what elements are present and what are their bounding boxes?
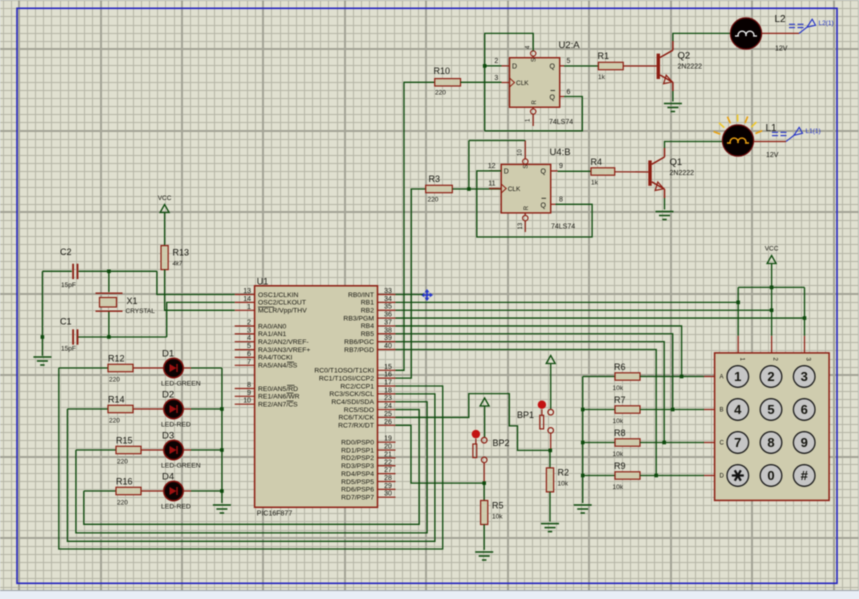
svg-text:8: 8: [767, 435, 774, 450]
ground LED bus: [213, 505, 231, 513]
wire RB2 to keypad col2: [396, 309, 772, 311]
svg-text:RA0/AN0: RA0/AN0: [258, 323, 287, 330]
svg-text:13: 13: [243, 288, 251, 295]
svg-text:R: R: [532, 100, 538, 105]
svg-text:#: #: [801, 468, 809, 483]
wire Q1 emitter: [664, 198, 666, 210]
junction: [220, 489, 224, 493]
svg-text:10: 10: [518, 149, 524, 156]
svg-text:LED-RED: LED-RED: [161, 422, 191, 429]
push button BP1: [517, 401, 554, 434]
junction: [483, 64, 487, 68]
LED D4 LED-RED: [161, 472, 191, 511]
wire L2 to terminal: [762, 32, 799, 34]
svg-text:RE1/AN6/WR: RE1/AN6/WR: [258, 394, 300, 401]
svg-text:220: 220: [117, 500, 128, 507]
svg-text:34: 34: [384, 296, 392, 303]
ground left rail: [33, 357, 51, 365]
svg-text:D: D: [512, 64, 517, 71]
junction: [803, 316, 807, 320]
svg-text:17: 17: [384, 380, 392, 387]
svg-text:D1: D1: [162, 349, 174, 360]
svg-text:10k: 10k: [613, 418, 624, 425]
crystal X1: [96, 293, 156, 315]
wire resistor to LED: [133, 367, 163, 369]
wire VCC to R13: [164, 213, 166, 246]
LED D3 LED-GREEN: [161, 431, 201, 470]
wire to OSC1 pin: [157, 271, 235, 294]
wire keypad column riser: [771, 287, 773, 335]
svg-text:1: 1: [247, 304, 251, 311]
svg-text:10k: 10k: [558, 481, 569, 488]
svg-text:R6: R6: [614, 362, 626, 372]
wire RC6 to BP1: [396, 394, 551, 451]
wire C1 to OSC2 riser: [77, 336, 166, 338]
resistor R5 10k: [481, 501, 504, 525]
flip-flop U2:A 74LS74: [494, 40, 580, 126]
ground R5: [475, 552, 493, 560]
wire Q1 collector to L1: [665, 142, 723, 149]
terminal L1(1): [772, 127, 821, 141]
svg-text:220: 220: [109, 418, 120, 425]
svg-text:12V: 12V: [766, 152, 779, 159]
wire crystal top stub: [108, 271, 110, 292]
wire Q to R1: [564, 65, 598, 67]
svg-text:B: B: [720, 408, 724, 414]
wire to R5: [483, 483, 485, 500]
wire VCC to BP2: [484, 406, 486, 437]
svg-text:Q: Q: [541, 202, 547, 209]
junction: [581, 408, 585, 412]
svg-text:CLK: CLK: [508, 186, 521, 193]
wire BP2 to junction: [483, 463, 485, 483]
wire keypad row stub: [704, 409, 716, 411]
svg-text:20: 20: [384, 444, 392, 451]
svg-text:8: 8: [559, 197, 563, 204]
svg-text:RC6/TX/CK: RC6/TX/CK: [338, 415, 374, 422]
ground R2: [541, 524, 559, 532]
junction: [107, 335, 111, 339]
resistor R2 10k: [546, 468, 569, 492]
resistor R8 10k: [613, 428, 641, 458]
wire LED cathode: [191, 449, 222, 451]
svg-text:S: S: [524, 165, 530, 169]
wire RB6 to keypad row C: [396, 342, 665, 443]
wire to R16: [84, 490, 116, 492]
svg-text:36: 36: [384, 312, 392, 319]
wire R1 to Q2 base: [623, 65, 657, 67]
svg-text:CRYSTAL: CRYSTAL: [126, 308, 156, 315]
wire BP1 to junction: [550, 433, 552, 450]
svg-text:R15: R15: [116, 436, 133, 446]
svg-text:R8: R8: [614, 428, 626, 438]
wire bus to R9: [583, 475, 615, 477]
wire resistor to LED: [133, 408, 163, 410]
svg-text:24: 24: [384, 403, 392, 410]
junction: [549, 449, 553, 453]
wire RB4 to keypad row A: [396, 326, 682, 377]
wire R4 to Q1 base: [615, 171, 649, 173]
svg-text:RB1: RB1: [361, 300, 374, 307]
svg-text:RA5/AN4/SS: RA5/AN4/SS: [258, 363, 298, 370]
wire R5 to ground: [483, 525, 485, 550]
svg-text:RC4/SDI/SDA: RC4/SDI/SDA: [331, 399, 374, 406]
wire left rail: [41, 271, 43, 337]
wire to R14: [67, 408, 108, 410]
power VCC R13: [158, 195, 172, 213]
svg-text:RC5/SDO: RC5/SDO: [344, 407, 374, 414]
svg-text:Q2: Q2: [678, 51, 691, 62]
svg-text:25: 25: [384, 411, 392, 418]
svg-text:Q1: Q1: [670, 157, 683, 168]
power VCC keypad: [765, 246, 779, 264]
wire Q2 emitter: [672, 91, 674, 102]
svg-text:11: 11: [488, 181, 495, 188]
svg-text:RD0/PSP0: RD0/PSP0: [341, 440, 374, 447]
svg-text:3: 3: [801, 369, 808, 384]
svg-text:35: 35: [384, 304, 392, 311]
svg-text:13: 13: [518, 222, 524, 229]
svg-text:15: 15: [384, 364, 392, 371]
svg-text:R3: R3: [429, 174, 441, 184]
svg-text:29: 29: [384, 483, 392, 490]
resistor R10 220: [434, 66, 461, 97]
wire RB1 to keypad col1: [396, 301, 739, 303]
svg-text:C1: C1: [60, 317, 72, 327]
wire U2:A D: [485, 65, 502, 67]
junction: [220, 407, 224, 411]
svg-text:RD2/PSP2: RD2/PSP2: [341, 455, 374, 462]
wire bus to R8: [583, 442, 615, 444]
resistor R13 4k7: [161, 246, 189, 270]
flip-flop U4:B 74LS74: [488, 141, 576, 233]
svg-text:2N2222: 2N2222: [678, 64, 703, 71]
bottom window strip: [0, 591, 859, 599]
wire keypad row stub: [704, 475, 716, 477]
ground keypad resistors: [574, 505, 592, 513]
svg-text:RB3/PGM: RB3/PGM: [343, 315, 374, 322]
junction: [654, 474, 658, 478]
svg-text:2N2222: 2N2222: [670, 170, 695, 177]
transistor Q1 2N2222: [648, 148, 694, 198]
wire RC7 to BP2: [396, 425, 485, 483]
svg-text:D2: D2: [162, 390, 174, 401]
resistor R15 220: [116, 436, 141, 466]
svg-text:RD1/PSP1: RD1/PSP1: [341, 447, 374, 454]
wire to R12: [59, 367, 108, 369]
svg-text:1k: 1k: [598, 74, 606, 81]
ground Q1: [656, 212, 674, 220]
ground Q2: [664, 104, 682, 112]
svg-text:2: 2: [494, 58, 498, 65]
svg-text:1k: 1k: [591, 180, 599, 187]
svg-text:RC2/CCP1: RC2/CCP1: [340, 383, 374, 390]
svg-text:RB2: RB2: [361, 308, 374, 315]
wire LED cathode stub: [183, 408, 191, 410]
junction: [736, 301, 740, 305]
svg-text:RD3/PSP3: RD3/PSP3: [341, 463, 374, 470]
junction: [482, 481, 486, 485]
lamp L2 12V: [730, 14, 787, 53]
svg-text:74LS74: 74LS74: [551, 224, 575, 231]
junction rail: [41, 335, 45, 339]
resistor R12 220: [108, 354, 133, 384]
wire RC1 to R3: [396, 189, 426, 378]
power VCC BP2: [480, 398, 489, 406]
svg-text:22: 22: [384, 459, 392, 466]
svg-text:10k: 10k: [492, 514, 503, 521]
svg-text:D: D: [720, 474, 725, 480]
svg-text:LED-RED: LED-RED: [161, 504, 191, 511]
svg-text:U1: U1: [257, 277, 269, 287]
wire bus to R7: [583, 409, 615, 411]
svg-text:10k: 10k: [613, 484, 624, 491]
wire U2:A Qbar feedback: [485, 97, 583, 131]
svg-text:A: A: [720, 375, 724, 381]
junction: [770, 286, 774, 290]
wire VCC stem: [771, 264, 773, 288]
LED D1 LED-GREEN: [161, 349, 201, 388]
svg-text:D: D: [504, 169, 509, 176]
junction: [662, 441, 666, 445]
resistor R4 1k: [591, 157, 615, 187]
junction: [680, 375, 684, 379]
svg-text:U4:B: U4:B: [550, 147, 571, 158]
wire R10 to U2:A CLK: [461, 81, 502, 83]
svg-text:R2: R2: [558, 468, 570, 478]
wire crystal bottom stub: [108, 312, 110, 338]
resistor R6 10k: [613, 362, 641, 392]
wire LED cathode stub: [183, 490, 191, 492]
resistor R1 1k: [598, 51, 624, 81]
wire Q to R4: [558, 170, 591, 172]
transistor Q2 2N2222: [657, 41, 703, 91]
svg-text:5: 5: [567, 58, 571, 65]
wire R13 to MCLR: [165, 270, 235, 311]
svg-text:BP2: BP2: [493, 438, 510, 448]
svg-text:RD7/PSP7: RD7/PSP7: [341, 494, 374, 501]
wire VCC bus: [738, 286, 804, 288]
svg-text:28: 28: [384, 475, 392, 482]
svg-text:12V: 12V: [775, 46, 788, 53]
svg-text:RE0/AN5/RD: RE0/AN5/RD: [258, 386, 298, 393]
svg-text:CLK: CLK: [516, 80, 529, 87]
wire Q2 collector to L2: [673, 33, 731, 41]
wire keypad column stub: [737, 336, 739, 353]
svg-text:RC0/T1OSO/T1CKI: RC0/T1OSO/T1CKI: [314, 368, 374, 375]
svg-text:L2(1): L2(1): [819, 20, 834, 27]
svg-text:R10: R10: [434, 66, 451, 76]
wire R6-R9 ground bus: [582, 377, 584, 504]
wire resistor to LED: [141, 449, 163, 451]
power VCC BP1: [546, 356, 555, 364]
svg-text:RB6/PGC: RB6/PGC: [344, 339, 374, 346]
wire L1 to terminal: [754, 141, 787, 143]
svg-text:33: 33: [384, 288, 392, 295]
svg-text:74LS74: 74LS74: [549, 119, 573, 126]
svg-text:R16: R16: [116, 477, 133, 487]
svg-text:BP1: BP1: [517, 410, 534, 420]
svg-text:LED-GREEN: LED-GREEN: [161, 381, 201, 388]
svg-text:15pF: 15pF: [61, 282, 76, 289]
wire keypad column stub: [771, 336, 773, 353]
resistor R7 10k: [613, 395, 641, 425]
wire RB5 to keypad row B: [396, 334, 673, 410]
junction: [581, 441, 585, 445]
wire U2:A set loop: [485, 33, 534, 130]
svg-text:RA4/T0CKI: RA4/T0CKI: [258, 355, 292, 362]
svg-text:Q: Q: [550, 64, 556, 71]
svg-text:R7: R7: [614, 395, 626, 405]
svg-text:4: 4: [247, 335, 251, 342]
wire R15 loop to RC pin: [76, 402, 427, 533]
svg-text:2: 2: [767, 369, 774, 384]
svg-text:RC1/T1OSI/CCP2: RC1/T1OSI/CCP2: [319, 375, 374, 382]
svg-text:5: 5: [247, 343, 251, 350]
svg-text:OSC2/CLKOUT: OSC2/CLKOUT: [258, 300, 306, 307]
svg-text:6: 6: [247, 351, 251, 358]
svg-text:RA2/AN2/VREF-: RA2/AN2/VREF-: [258, 339, 309, 346]
junction: [467, 187, 471, 191]
terminal L2(1): [789, 19, 834, 33]
svg-text:RC3/SCK/SCL: RC3/SCK/SCL: [329, 391, 374, 398]
wire to R15: [76, 449, 116, 451]
svg-text:4: 4: [734, 402, 742, 417]
svg-text:6: 6: [801, 402, 808, 417]
svg-text:R13: R13: [173, 248, 190, 258]
wire U4:B set top: [469, 140, 525, 142]
junction: [107, 270, 111, 274]
svg-text:7: 7: [247, 359, 251, 366]
svg-text:R4: R4: [591, 157, 603, 167]
resistor R3 220: [426, 174, 453, 204]
svg-text:VCC: VCC: [158, 195, 172, 202]
svg-text:4k7: 4k7: [173, 262, 183, 268]
wire VCC to BP1: [550, 364, 552, 410]
svg-text:OSC1/CLKIN: OSC1/CLKIN: [258, 292, 299, 299]
svg-text:38: 38: [384, 327, 392, 334]
wire keypad column riser: [804, 287, 806, 335]
svg-text:L1(1): L1(1): [806, 128, 821, 135]
wire LED cathode: [191, 490, 222, 492]
junction: [581, 474, 585, 478]
wire LED cathode stub: [183, 449, 191, 451]
wire LED cathode stub: [183, 367, 191, 369]
svg-text:U2:A: U2:A: [559, 40, 581, 51]
svg-text:D4: D4: [162, 472, 174, 483]
svg-text:10k: 10k: [613, 451, 624, 458]
resistor R16 220: [116, 477, 141, 507]
wire C2 to OSC1: [79, 270, 157, 272]
svg-text:RD5/PSP5: RD5/PSP5: [341, 479, 374, 486]
wire R12 loop to RC pin: [59, 368, 443, 549]
wire R7 to keypad row: [640, 409, 704, 411]
svg-text:27: 27: [384, 467, 392, 474]
wire LED cathode: [191, 367, 222, 369]
wire keypad row stub: [704, 442, 716, 444]
svg-text:5: 5: [767, 402, 774, 417]
wire U4:B D feedback: [477, 171, 592, 237]
wire set riser: [468, 141, 470, 190]
wire LED cathode bus: [221, 368, 223, 503]
svg-text:X1: X1: [127, 296, 138, 306]
svg-text:8: 8: [247, 382, 251, 389]
push button BP2: [472, 430, 510, 463]
svg-text:30: 30: [384, 491, 392, 498]
svg-text:C2: C2: [60, 247, 72, 257]
wire R6 to keypad row: [640, 376, 704, 378]
microcontroller U1 PIC16F877: [235, 277, 396, 518]
svg-text:RE2/AN7/CS: RE2/AN7/CS: [258, 402, 298, 409]
wire LED cathode: [191, 408, 222, 410]
keypad 3x4: [715, 353, 830, 501]
svg-text:R12: R12: [108, 354, 125, 364]
svg-text:R1: R1: [598, 51, 610, 61]
svg-text:220: 220: [117, 459, 128, 466]
svg-text:R9: R9: [614, 461, 626, 471]
svg-text:6: 6: [567, 89, 571, 96]
selection cursor cross: [421, 289, 433, 301]
lamp L1 12V lit: [714, 115, 779, 160]
svg-text:40: 40: [384, 343, 392, 350]
wire RB3 to keypad col3: [396, 317, 805, 319]
svg-text:15pF: 15pF: [61, 346, 76, 353]
junction: [671, 408, 675, 412]
wire keypad column stub: [804, 336, 806, 353]
svg-text:MCLR/Vpp/THV: MCLR/Vpp/THV: [258, 308, 307, 315]
svg-text:12: 12: [488, 163, 496, 170]
svg-text:14: 14: [243, 296, 251, 303]
wire keypad row stub: [704, 376, 716, 378]
resistor R9 10k: [613, 461, 641, 491]
svg-text:37: 37: [384, 319, 392, 326]
junction: [220, 448, 224, 452]
wire to R2: [549, 450, 551, 468]
svg-text:R5: R5: [492, 501, 504, 511]
svg-text:18: 18: [384, 387, 392, 394]
svg-text:1: 1: [734, 369, 741, 384]
svg-text:Q: Q: [550, 95, 556, 102]
LED D2 LED-RED: [161, 390, 191, 429]
svg-text:9: 9: [801, 435, 808, 450]
svg-text:PIC16F877: PIC16F877: [257, 511, 293, 518]
svg-text:RD4/PSP4: RD4/PSP4: [341, 471, 374, 478]
svg-text:RB5: RB5: [361, 331, 374, 338]
svg-text:D3: D3: [162, 431, 174, 442]
wire to OSC2 pin: [167, 302, 235, 337]
svg-text:RC7/RX/DT: RC7/RX/DT: [338, 423, 374, 430]
wire C2 left: [42, 270, 71, 272]
svg-text:R14: R14: [108, 395, 125, 405]
svg-text:L2: L2: [775, 14, 787, 25]
svg-text:220: 220: [109, 377, 120, 384]
svg-text:39: 39: [384, 335, 392, 342]
svg-text:RB4: RB4: [361, 323, 374, 330]
wire R14 loop to RC pin: [67, 394, 435, 541]
capacitor C2 15pF: [60, 247, 78, 289]
wire rail to ground: [41, 337, 43, 356]
svg-text:2: 2: [247, 320, 251, 327]
svg-text:Q: Q: [541, 169, 547, 176]
wire keypad column riser: [737, 287, 739, 335]
svg-text:9: 9: [247, 390, 251, 397]
svg-text:S: S: [532, 58, 538, 62]
svg-text:3: 3: [494, 75, 498, 82]
wire RB7 to keypad row D: [396, 349, 657, 475]
svg-text:19: 19: [384, 436, 392, 443]
svg-text:LED-GREEN: LED-GREEN: [161, 463, 201, 470]
junction: [770, 308, 774, 312]
